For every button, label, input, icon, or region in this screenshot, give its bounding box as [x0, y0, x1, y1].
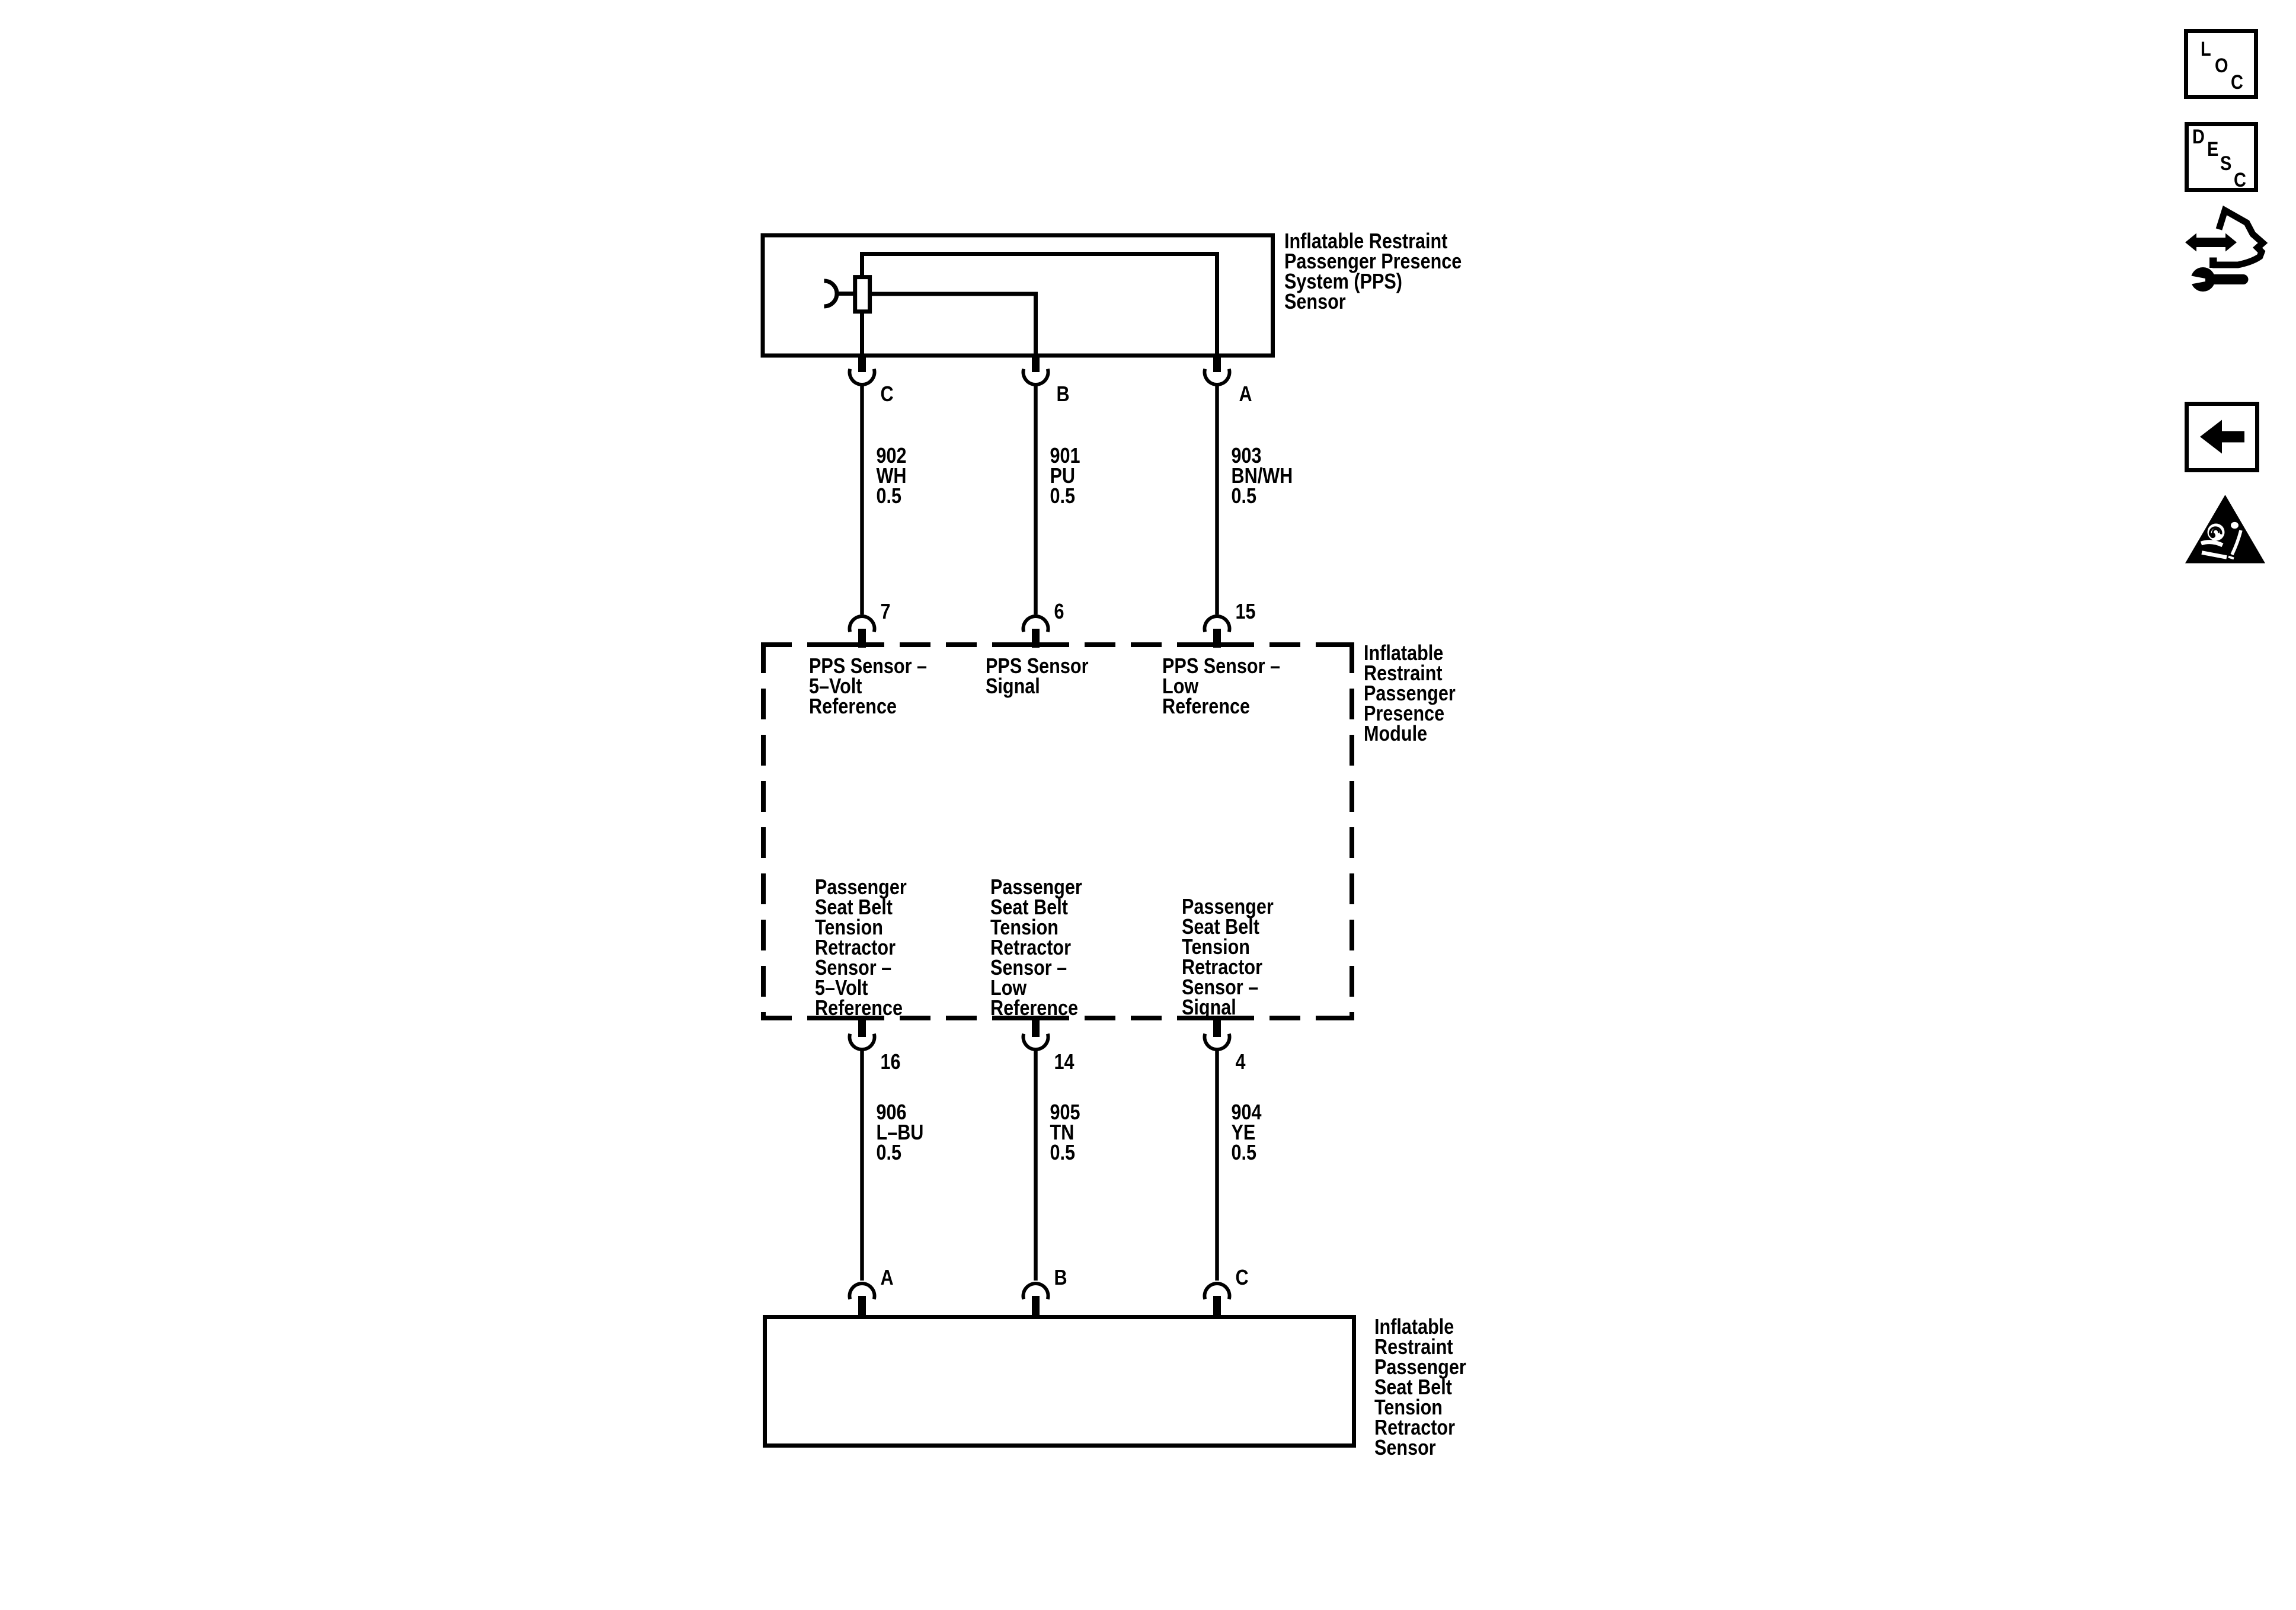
wire 904 YE 0.5 — [1215, 1049, 1219, 1281]
dash pads under module pins — [837, 642, 1237, 1020]
wire 905 TN 0.5 — [1034, 1049, 1038, 1281]
svg-text:L: L — [2201, 38, 2211, 60]
connector pin 6 at module top — [1024, 616, 1048, 648]
svg-text:15: 15 — [1236, 599, 1256, 623]
connector pin 4 at module bottom — [1205, 1018, 1230, 1049]
wire 902 WH 0.5 — [860, 384, 864, 614]
svg-text:S: S — [2220, 152, 2231, 175]
svg-text:Sensor: Sensor — [1284, 289, 1346, 313]
svg-text:Reference: Reference — [1162, 694, 1250, 718]
svg-text:14: 14 — [1054, 1049, 1075, 1074]
connector pin C at top box bottom — [850, 355, 875, 385]
wire 901 PU 0.5 — [1034, 384, 1038, 614]
svg-text:D: D — [2192, 126, 2205, 148]
svg-text:C: C — [2231, 71, 2243, 94]
svg-text:Signal: Signal — [986, 674, 1040, 698]
connector pin 16 at module bottom — [850, 1018, 875, 1049]
top box label — [1284, 229, 1462, 313]
PPS sensor element (pressure arc + element rectangle) — [824, 277, 870, 312]
svg-text:16: 16 — [881, 1049, 901, 1074]
module pin 7 function label — [809, 654, 927, 718]
svg-text:0.5: 0.5 — [1050, 1140, 1076, 1164]
connector pin 7 at module top — [850, 616, 875, 648]
wire 903 BN/WH 0.5 — [1215, 384, 1219, 614]
svg-text:C: C — [1236, 1265, 1249, 1289]
double-headed arrow — [2185, 233, 2237, 252]
svg-text:0.5: 0.5 — [1050, 484, 1076, 508]
top box: Inflatable Restraint Passenger Presence System (PPS) Sensor — [763, 235, 1273, 356]
icon: connector end view (silhouette, double arrow, wrench) — [2185, 210, 2263, 292]
svg-text:Signal: Signal — [1182, 995, 1236, 1019]
connector pin 14 at module bottom — [1024, 1018, 1048, 1049]
wrench — [2191, 267, 2215, 292]
svg-text:B: B — [1057, 382, 1070, 406]
module right label — [1364, 641, 1456, 745]
connector pin 15 at module top — [1205, 616, 1230, 648]
svg-text:7: 7 — [881, 599, 891, 623]
svg-text:O: O — [2215, 55, 2228, 77]
svg-text:Reference: Reference — [815, 996, 903, 1020]
svg-text:Reference: Reference — [809, 694, 897, 718]
svg-text:C: C — [881, 382, 894, 406]
bottom box: Inflatable Restraint Passenger Seat Belt Tension Retractor Sensor — [765, 1317, 1354, 1446]
icon: SRS airbag warning triangle — [2185, 495, 2265, 564]
svg-text:0.5: 0.5 — [877, 1140, 902, 1164]
svg-text:6: 6 — [1054, 599, 1064, 623]
svg-text:0.5: 0.5 — [1232, 484, 1257, 508]
connector pin B at bottom box top — [1024, 1283, 1048, 1319]
connector pin C at bottom box top — [1205, 1283, 1230, 1319]
icon: back arrow box — [2187, 404, 2257, 470]
module pin 4 function label — [1182, 894, 1274, 1019]
bottom box label — [1374, 1314, 1466, 1459]
svg-text:Reference: Reference — [990, 996, 1078, 1020]
wire 906 L–BU 0.5 — [860, 1049, 864, 1281]
svg-text:4: 4 — [1236, 1049, 1246, 1074]
svg-text:E: E — [2207, 138, 2218, 161]
wire: sensor right to pin B (inside top box) — [870, 294, 1036, 355]
dash patches at right corners of module box — [1336, 642, 1354, 1020]
svg-text:Module: Module — [1364, 721, 1427, 745]
svg-text:Sensor: Sensor — [1374, 1435, 1436, 1459]
svg-text:0.5: 0.5 — [877, 484, 902, 508]
connector pin B at top box bottom — [1024, 355, 1048, 385]
svg-text:B: B — [1054, 1265, 1067, 1289]
module pin 6 function label — [986, 654, 1089, 698]
wire: sensor top to pin A (inside top box) — [862, 254, 1217, 356]
connector pin A at bottom box top — [850, 1283, 875, 1319]
wire: sensor bottom to pin C (inside top box) — [860, 312, 864, 355]
module pin 15 function label — [1162, 654, 1280, 718]
svg-text:A: A — [1239, 382, 1252, 406]
module pin 16 function label — [815, 875, 907, 1020]
svg-text:0.5: 0.5 — [1232, 1140, 1257, 1164]
module dashed box: Inflatable Restraint Passenger Presence Module — [761, 642, 1354, 1020]
svg-text:C: C — [2234, 169, 2246, 191]
module pin 14 function label — [990, 875, 1082, 1020]
connector pin A at top box bottom — [1205, 355, 1230, 385]
icon: DESC box — [2187, 124, 2256, 192]
connector silhouette outline — [2212, 210, 2263, 265]
icon: LOC box — [2186, 31, 2256, 97]
svg-text:A: A — [881, 1265, 894, 1289]
